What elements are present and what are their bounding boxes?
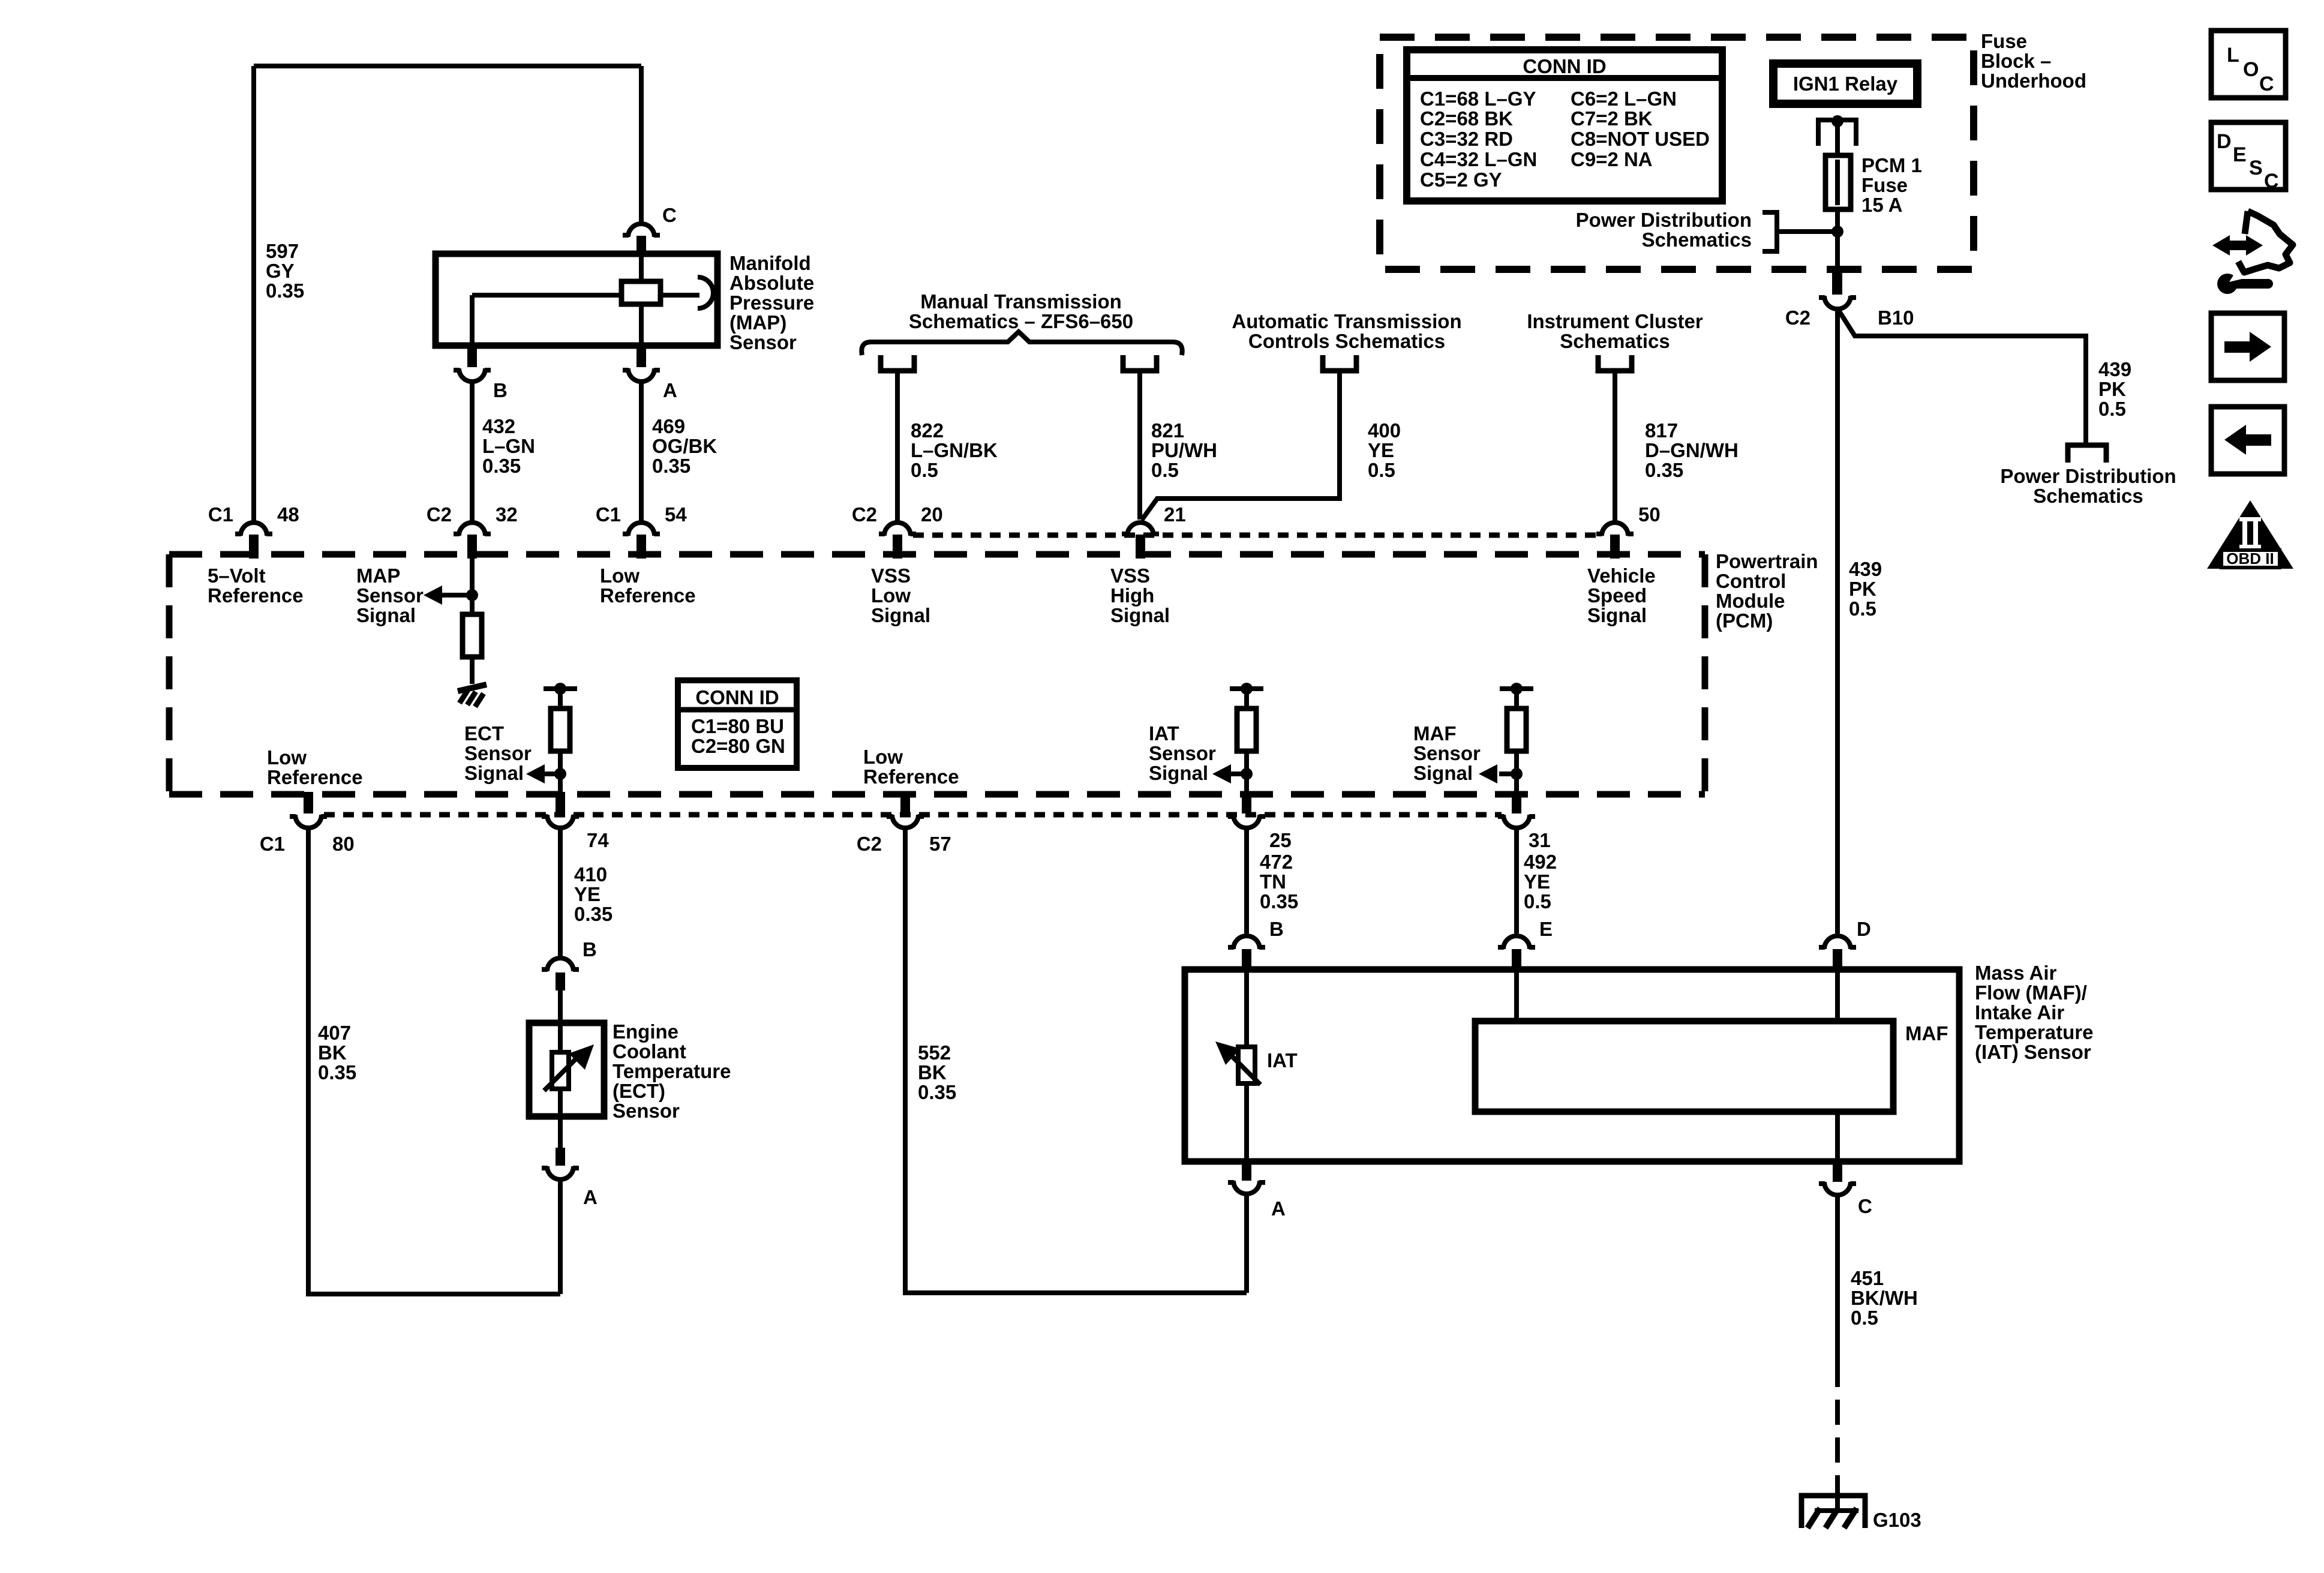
- svg-text:MAF: MAF: [1413, 722, 1456, 745]
- svg-text:Intake Air: Intake Air: [1975, 1001, 2064, 1023]
- svg-text:Automatic Transmission: Automatic Transmission: [1232, 310, 1461, 332]
- svg-text:0.35: 0.35: [266, 280, 304, 302]
- svg-text:0.5: 0.5: [1851, 1307, 1878, 1329]
- svg-text:C5=2 GY: C5=2 GY: [1420, 169, 1502, 191]
- svg-text:C: C: [2264, 170, 2279, 193]
- svg-text:Fuse: Fuse: [1861, 174, 1908, 196]
- svg-text:439: 439: [2098, 358, 2131, 380]
- svg-text:(PCM): (PCM): [1716, 610, 1773, 632]
- svg-text:Powertrain: Powertrain: [1716, 550, 1818, 572]
- svg-text:Sensor: Sensor: [729, 331, 797, 353]
- svg-text:Sensor: Sensor: [1149, 742, 1216, 764]
- svg-text:Signal: Signal: [871, 604, 930, 626]
- svg-text:B: B: [1269, 918, 1284, 940]
- svg-text:821: 821: [1151, 419, 1184, 442]
- svg-text:G103: G103: [1873, 1509, 1921, 1531]
- svg-text:57: 57: [929, 833, 951, 855]
- svg-text:Speed: Speed: [1587, 584, 1647, 607]
- svg-text:597: 597: [266, 240, 299, 262]
- svg-text:0.35: 0.35: [1645, 459, 1683, 481]
- svg-text:Temperature: Temperature: [1975, 1021, 2093, 1043]
- svg-text:Temperature: Temperature: [612, 1060, 731, 1082]
- svg-text:PK: PK: [2098, 378, 2126, 400]
- svg-text:Mass Air: Mass Air: [1975, 962, 2056, 984]
- svg-text:0.5: 0.5: [1849, 598, 1876, 620]
- svg-text:C1=80 BU: C1=80 BU: [691, 715, 784, 737]
- svg-text:TN: TN: [1260, 870, 1286, 893]
- svg-text:(ECT): (ECT): [612, 1080, 665, 1102]
- svg-text:0.35: 0.35: [918, 1081, 956, 1103]
- svg-text:48: 48: [277, 503, 299, 526]
- svg-text:439: 439: [1849, 558, 1882, 580]
- svg-text:D: D: [2217, 130, 2232, 153]
- svg-text:OBD II: OBD II: [2226, 550, 2274, 568]
- svg-text:B10: B10: [1878, 307, 1914, 329]
- svg-text:ECT: ECT: [464, 722, 504, 745]
- svg-text:Reference: Reference: [600, 584, 696, 607]
- svg-text:YE: YE: [1368, 439, 1394, 461]
- svg-text:C: C: [2259, 73, 2274, 95]
- svg-text:822: 822: [911, 419, 944, 442]
- svg-text:OG/BK: OG/BK: [652, 435, 717, 457]
- svg-text:15 A: 15 A: [1861, 194, 1902, 216]
- svg-text:IAT: IAT: [1267, 1049, 1298, 1071]
- svg-text:A: A: [1271, 1197, 1286, 1220]
- svg-text:BK: BK: [918, 1061, 947, 1083]
- svg-text:Signal: Signal: [356, 604, 416, 626]
- svg-text:410: 410: [574, 863, 607, 885]
- svg-text:451: 451: [1851, 1267, 1884, 1289]
- svg-text:Schematics: Schematics: [2033, 485, 2143, 507]
- svg-text:Signal: Signal: [1110, 604, 1170, 626]
- svg-text:Signal: Signal: [464, 762, 524, 784]
- svg-text:Low: Low: [871, 584, 911, 607]
- svg-text:IGN1 Relay: IGN1 Relay: [1793, 73, 1898, 95]
- svg-text:Power Distribution: Power Distribution: [2000, 465, 2176, 487]
- svg-text:D: D: [1857, 918, 1871, 940]
- svg-text:A: A: [663, 379, 677, 401]
- svg-text:Absolute: Absolute: [729, 272, 814, 294]
- svg-text:High: High: [1110, 584, 1154, 607]
- svg-text:Coolant: Coolant: [612, 1040, 686, 1062]
- svg-text:Flow (MAF)/: Flow (MAF)/: [1975, 981, 2087, 1004]
- svg-text:20: 20: [921, 503, 943, 526]
- svg-text:0.5: 0.5: [911, 459, 938, 481]
- svg-text:0.35: 0.35: [1260, 890, 1298, 912]
- svg-text:C9=2 NA: C9=2 NA: [1571, 148, 1653, 170]
- svg-text:32: 32: [496, 503, 518, 526]
- svg-text:(MAP): (MAP): [729, 311, 786, 334]
- svg-text:31: 31: [1529, 829, 1551, 851]
- svg-text:C1=68 L–GY: C1=68 L–GY: [1420, 88, 1536, 110]
- svg-text:21: 21: [1164, 503, 1186, 526]
- svg-text:407: 407: [318, 1022, 351, 1044]
- svg-text:Pressure: Pressure: [729, 292, 814, 314]
- svg-text:74: 74: [587, 829, 609, 851]
- svg-text:VSS: VSS: [871, 565, 911, 587]
- svg-text:Low: Low: [267, 746, 307, 769]
- svg-text:CONN ID: CONN ID: [695, 686, 779, 709]
- svg-text:Schematics: Schematics: [1642, 229, 1752, 251]
- svg-text:C4=32 L–GN: C4=32 L–GN: [1420, 148, 1537, 170]
- svg-text:Schematics: Schematics: [1560, 330, 1670, 352]
- svg-text:MAP: MAP: [356, 565, 400, 587]
- svg-text:YE: YE: [1524, 870, 1550, 893]
- svg-text:0.35: 0.35: [318, 1061, 356, 1083]
- svg-text:C7=2 BK: C7=2 BK: [1571, 107, 1653, 130]
- svg-text:Low: Low: [863, 746, 903, 768]
- svg-text:O: O: [2243, 58, 2259, 81]
- svg-text:Reference: Reference: [863, 766, 959, 788]
- svg-text:0.5: 0.5: [1524, 890, 1551, 912]
- svg-text:BK/WH: BK/WH: [1851, 1287, 1918, 1309]
- svg-text:E: E: [1539, 918, 1553, 940]
- svg-text:MAF: MAF: [1905, 1022, 1948, 1044]
- svg-text:Manifold: Manifold: [729, 252, 811, 274]
- svg-text:Control: Control: [1716, 570, 1786, 592]
- svg-text:469: 469: [652, 415, 685, 437]
- svg-text:80: 80: [332, 833, 355, 855]
- svg-text:D–GN/WH: D–GN/WH: [1645, 439, 1739, 461]
- svg-text:C1: C1: [260, 833, 285, 855]
- svg-text:Signal: Signal: [1587, 604, 1647, 626]
- svg-text:0.35: 0.35: [574, 903, 612, 925]
- svg-text:C: C: [1858, 1195, 1872, 1217]
- svg-text:Underhood: Underhood: [1981, 70, 2086, 92]
- svg-text:YE: YE: [574, 883, 600, 905]
- svg-text:B: B: [493, 379, 508, 401]
- svg-text:Sensor: Sensor: [612, 1100, 680, 1122]
- svg-text:Sensor: Sensor: [356, 584, 424, 607]
- svg-text:L: L: [2227, 44, 2239, 67]
- svg-text:0.35: 0.35: [482, 455, 521, 477]
- svg-text:IAT: IAT: [1149, 722, 1179, 745]
- svg-text:C2: C2: [1785, 307, 1810, 329]
- svg-text:C1: C1: [596, 503, 621, 526]
- svg-text:C2=68 BK: C2=68 BK: [1420, 107, 1513, 130]
- svg-text:492: 492: [1524, 851, 1557, 873]
- svg-text:C8=NOT USED: C8=NOT USED: [1571, 128, 1710, 150]
- svg-text:Reference: Reference: [208, 584, 304, 607]
- svg-text:(IAT) Sensor: (IAT) Sensor: [1975, 1041, 2091, 1063]
- svg-text:50: 50: [1638, 503, 1661, 526]
- svg-text:PK: PK: [1849, 578, 1876, 600]
- svg-text:25: 25: [1269, 829, 1292, 851]
- svg-text:Signal: Signal: [1413, 762, 1473, 784]
- svg-text:C2=80 GN: C2=80 GN: [691, 735, 785, 757]
- svg-text:0.5: 0.5: [1368, 459, 1395, 481]
- svg-text:PCM 1: PCM 1: [1861, 154, 1922, 176]
- svg-text:GY: GY: [266, 260, 295, 282]
- svg-text:L–GN/BK: L–GN/BK: [911, 439, 998, 461]
- svg-text:400: 400: [1368, 419, 1401, 442]
- svg-text:C2: C2: [427, 503, 452, 526]
- svg-text:B: B: [582, 938, 597, 960]
- svg-text:Power Distribution: Power Distribution: [1576, 209, 1752, 231]
- svg-text:C1: C1: [208, 503, 233, 526]
- svg-text:C: C: [662, 204, 677, 226]
- svg-text:Sensor: Sensor: [464, 742, 532, 764]
- svg-text:C2: C2: [857, 833, 882, 855]
- svg-text:CONN ID: CONN ID: [1523, 55, 1606, 77]
- svg-text:817: 817: [1645, 419, 1678, 442]
- svg-text:BK: BK: [318, 1041, 347, 1064]
- svg-text:A: A: [583, 1186, 597, 1208]
- svg-text:Vehicle: Vehicle: [1587, 565, 1656, 587]
- svg-text:Signal: Signal: [1149, 762, 1208, 784]
- svg-text:VSS: VSS: [1110, 565, 1150, 587]
- svg-text:C2: C2: [852, 503, 877, 526]
- svg-text:472: 472: [1260, 851, 1293, 873]
- svg-text:E: E: [2233, 143, 2247, 166]
- svg-text:552: 552: [918, 1041, 951, 1064]
- svg-text:L–GN: L–GN: [482, 435, 535, 457]
- svg-text:0.5: 0.5: [2098, 398, 2126, 420]
- svg-text:0.35: 0.35: [652, 455, 690, 477]
- svg-text:Module: Module: [1716, 590, 1785, 612]
- svg-text:54: 54: [665, 503, 687, 526]
- svg-text:432: 432: [482, 415, 515, 437]
- svg-text:5–Volt: 5–Volt: [208, 565, 266, 587]
- svg-text:Instrument Cluster: Instrument Cluster: [1527, 310, 1703, 332]
- svg-text:Block –: Block –: [1981, 50, 2051, 72]
- svg-text:Sensor: Sensor: [1413, 742, 1481, 764]
- svg-text:Engine: Engine: [612, 1020, 678, 1043]
- svg-text:Schematics – ZFS6–650: Schematics – ZFS6–650: [909, 310, 1133, 332]
- svg-text:C3=32 RD: C3=32 RD: [1420, 128, 1513, 150]
- svg-text:Controls Schematics: Controls Schematics: [1248, 330, 1445, 352]
- svg-text:0.5: 0.5: [1151, 459, 1179, 481]
- svg-text:Manual Transmission: Manual Transmission: [920, 290, 1122, 313]
- svg-text:Fuse: Fuse: [1981, 30, 2027, 52]
- svg-text:PU/WH: PU/WH: [1151, 439, 1217, 461]
- svg-text:S: S: [2249, 157, 2263, 179]
- svg-text:Low: Low: [600, 565, 639, 587]
- svg-text:Reference: Reference: [267, 766, 363, 788]
- svg-text:C6=2 L–GN: C6=2 L–GN: [1571, 88, 1677, 110]
